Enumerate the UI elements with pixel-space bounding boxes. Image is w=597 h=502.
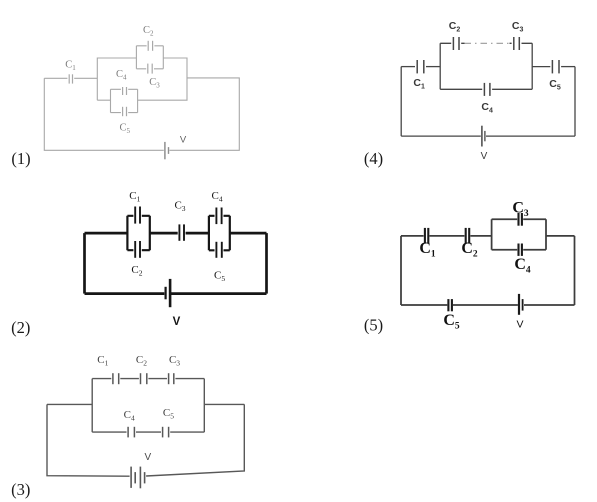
capacitor C4	[123, 87, 127, 95]
battery V	[165, 142, 169, 159]
wire top-left to C1	[401, 66, 415, 68]
svg-text:(3): (3)	[11, 480, 30, 499]
capacitor C2	[135, 241, 140, 258]
wire bottom segments	[85, 292, 267, 295]
capacitor C3	[179, 224, 184, 240]
wire right vertical	[265, 233, 268, 294]
capacitor C2	[141, 373, 147, 384]
capacitor C3	[169, 373, 174, 384]
wire bottom segments	[401, 135, 575, 137]
capacitor C4	[484, 83, 490, 96]
wire top-left to C1	[44, 77, 67, 79]
capacitor C5	[123, 107, 127, 116]
wire outer loop	[47, 404, 244, 476]
node parallel block C3/C4	[492, 219, 546, 250]
capacitor C5	[216, 242, 221, 258]
svg-text:(4): (4)	[364, 149, 383, 168]
wire middle rectangle	[97, 58, 187, 100]
wire bottom segments	[401, 304, 575, 306]
capacitor C5	[448, 299, 452, 311]
wire middle rect top edge	[92, 378, 204, 380]
capacitor C5	[552, 60, 559, 73]
wire top segments	[85, 232, 267, 235]
wire block to right	[546, 235, 575, 237]
capacitor C3	[148, 64, 152, 74]
wire middle rect sides	[440, 43, 532, 89]
wire right vertical	[574, 67, 576, 137]
node parallel block C4/C5	[209, 216, 230, 251]
capacitor C4	[519, 244, 522, 256]
node parallel block C4/C5	[111, 89, 138, 112]
capacitor C4	[216, 208, 221, 225]
wire entry right	[204, 403, 244, 405]
battery V	[482, 126, 485, 147]
wire entry left	[47, 403, 92, 405]
capacitor C1	[69, 74, 72, 83]
wire right vertical	[574, 236, 576, 305]
capacitor C1	[113, 373, 119, 384]
wire left vertical	[400, 236, 402, 305]
svg-text:(5): (5)	[364, 316, 383, 335]
capacitor C1	[425, 228, 428, 244]
capacitor C1	[135, 207, 140, 224]
wire left vertical	[83, 233, 86, 294]
wire middle rect top edge	[440, 42, 532, 44]
wire C1 to middle rect	[74, 77, 97, 79]
wire middle rect bottom edge	[440, 88, 532, 90]
capacitor C5	[163, 427, 169, 438]
wire outer loop bottom-right + right vertical + top-right stub	[170, 78, 240, 150]
capacitor C4	[128, 427, 134, 438]
node parallel block C1/C2	[127, 216, 149, 250]
battery V	[519, 294, 523, 315]
wire C5 to right	[561, 66, 575, 68]
capacitor C3	[519, 213, 522, 226]
wire faded segment	[465, 42, 510, 44]
svg-text:(2): (2)	[11, 318, 30, 337]
wire outer loop left+bottom	[44, 78, 164, 150]
svg-text:V: V	[481, 151, 488, 162]
battery V	[166, 279, 171, 307]
wire C1 to middle rect	[426, 66, 440, 68]
svg-text:V: V	[516, 319, 523, 331]
svg-text:V: V	[180, 134, 187, 145]
capacitor C3	[514, 37, 520, 50]
svg-text:V: V	[173, 316, 181, 328]
capacitor C2	[148, 41, 152, 51]
wire middle rect to C5	[532, 66, 550, 68]
battery V	[131, 467, 145, 489]
wire middle rect bottom edge	[92, 431, 204, 433]
wire top segments	[401, 235, 492, 237]
svg-text:V: V	[144, 452, 151, 463]
capacitor C1	[417, 60, 424, 73]
capacitor C2	[453, 37, 459, 50]
wire left vertical	[400, 67, 402, 137]
capacitor C2	[466, 228, 470, 244]
node parallel block C2/C3	[136, 46, 163, 69]
svg-text:(1): (1)	[11, 149, 30, 168]
wire middle rect sides	[92, 379, 204, 433]
